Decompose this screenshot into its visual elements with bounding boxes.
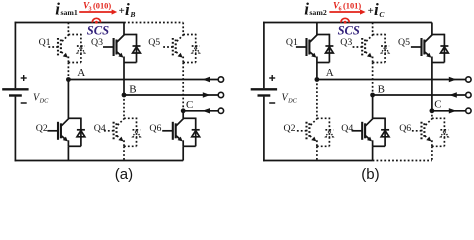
- wire: left rail bottom: [14, 97, 16, 162]
- phase B current arrow: [203, 92, 211, 97]
- wire: bottom DC rail (open part, dotted): [373, 160, 432, 162]
- wire: phase A leg, node A to lower cell: [67, 80, 69, 119]
- diode of Q5: [440, 46, 448, 53]
- phase B terminal: [218, 92, 223, 97]
- wire: phase B output line: [373, 94, 466, 96]
- wire: phase A output line: [68, 79, 218, 81]
- battery V_DC: [251, 89, 277, 95]
- svg-text:Q6: Q6: [399, 123, 411, 134]
- wire: phase C output line: [183, 110, 218, 112]
- transistor Q5: [162, 34, 196, 63]
- svg-text:i: i: [125, 0, 130, 19]
- commutation current arrow (red): [79, 9, 117, 14]
- wire: phase C upper leg from top rail: [431, 23, 433, 35]
- wire: phase B leg, node B to lower cell: [123, 95, 125, 118]
- svg-text:+: +: [368, 5, 374, 17]
- battery plus mark: [21, 75, 27, 81]
- svg-text:SCS: SCS: [87, 24, 109, 38]
- svg-text:6: 6: [339, 6, 342, 13]
- svg-text:+: +: [119, 5, 125, 17]
- battery minus mark: [21, 102, 27, 104]
- diode of Q3: [381, 46, 389, 53]
- svg-text:SCS: SCS: [338, 24, 360, 38]
- transistor Q6: [411, 118, 445, 147]
- phase A current arrow: [449, 77, 457, 82]
- wire: phase B output line: [124, 94, 218, 96]
- svg-text:A: A: [326, 67, 334, 79]
- wire: phase C lower cell to bottom rail: [182, 146, 184, 160]
- diode of Q6: [440, 130, 448, 137]
- svg-text:B: B: [129, 84, 136, 96]
- svg-text:DC: DC: [287, 98, 298, 105]
- svg-text:(101): (101): [343, 2, 361, 11]
- svg-text:Q3: Q3: [340, 37, 352, 48]
- label V_6(101): [333, 1, 361, 13]
- label i_sam: [304, 0, 327, 18]
- wire: phase C leg, node C to lower cell: [182, 111, 184, 119]
- wire: phase C leg, upper cell to node C: [431, 63, 433, 111]
- svg-text:Q5: Q5: [398, 37, 410, 48]
- svg-text:B: B: [129, 10, 135, 19]
- label V_DC: [33, 93, 49, 105]
- wire: phase B leg, node B to lower cell: [372, 95, 374, 118]
- node C: [181, 108, 186, 113]
- wire: bottom DC rail (solid part): [263, 160, 373, 162]
- svg-text:(b): (b): [361, 166, 379, 182]
- label i_sam: [55, 0, 78, 18]
- node B: [370, 93, 375, 98]
- wire: left rail bottom: [263, 97, 265, 162]
- phase C current arrow: [203, 108, 211, 113]
- diode of Q4: [133, 130, 141, 137]
- wire: phase C output line: [432, 110, 466, 112]
- svg-text:Q1: Q1: [39, 37, 51, 48]
- transistor Q2: [47, 118, 81, 147]
- wire: phase C leg, upper cell to node C: [182, 63, 184, 111]
- svg-text:C: C: [434, 98, 441, 110]
- wire: phase A leg, upper cell to node A: [316, 63, 318, 80]
- battery plus mark: [269, 75, 275, 81]
- wire: phase C leg, node C to lower cell: [431, 111, 433, 119]
- svg-text:Q4: Q4: [94, 123, 106, 134]
- svg-text:sam2: sam2: [309, 8, 326, 17]
- wire: left rail top: [14, 22, 16, 89]
- svg-text:Q4: Q4: [341, 123, 353, 134]
- diode of Q1: [77, 46, 85, 53]
- wire: phase A upper leg from top rail: [67, 23, 69, 35]
- svg-text:DC: DC: [39, 98, 50, 105]
- label +i_C: [368, 0, 386, 19]
- node B: [122, 93, 127, 98]
- phase C terminal: [218, 108, 223, 113]
- svg-text:Q2: Q2: [284, 123, 296, 134]
- wire: phase A lower cell to bottom rail: [67, 146, 69, 160]
- diode of Q6: [192, 130, 200, 137]
- svg-text:Q5: Q5: [148, 37, 160, 48]
- svg-text:C: C: [186, 99, 193, 111]
- node C: [430, 108, 435, 113]
- wire: phase C upper leg from top rail: [182, 23, 184, 35]
- wire: left rail top: [263, 22, 265, 89]
- svg-text:Q1: Q1: [286, 37, 298, 48]
- svg-text:Q2: Q2: [36, 123, 48, 134]
- transistor Q5: [411, 34, 445, 63]
- svg-text:Q6: Q6: [149, 123, 161, 134]
- wire: phase B upper leg from top rail: [123, 23, 125, 35]
- transistor Q2: [296, 118, 330, 147]
- diode of Q2: [77, 130, 85, 137]
- wire: top DC rail (open part, dotted): [124, 22, 183, 24]
- wire: phase B leg, upper cell to node B: [372, 63, 374, 96]
- svg-text:i: i: [374, 0, 379, 19]
- diode of Q4: [381, 130, 389, 137]
- current sensor SCS bump: [92, 18, 100, 22]
- label +i_B: [119, 0, 136, 19]
- transistor Q1: [47, 34, 81, 63]
- phase A terminal: [218, 77, 223, 82]
- label V_DC: [282, 93, 298, 105]
- phase B terminal: [466, 92, 471, 97]
- svg-text:A: A: [77, 67, 85, 79]
- wire: top DC rail: [263, 22, 432, 24]
- phase C current arrow: [449, 108, 457, 113]
- wire: phase B leg, upper cell to node B: [123, 63, 125, 96]
- diode of Q1: [325, 46, 333, 53]
- current sensor SCS dot: [344, 21, 347, 24]
- wire: phase A lower cell to bottom rail: [316, 146, 318, 160]
- phase A current arrow: [203, 77, 211, 82]
- wire: phase B lower cell to bottom rail: [123, 146, 125, 160]
- commutation current arrow (red): [329, 9, 365, 14]
- phase B current arrow: [449, 92, 457, 97]
- battery minus mark: [269, 102, 275, 104]
- battery V_DC: [2, 89, 28, 95]
- current sensor SCS bump: [341, 18, 349, 22]
- svg-text:3: 3: [89, 6, 92, 13]
- phase C terminal: [466, 108, 471, 113]
- wire: phase C lower cell to bottom rail: [431, 146, 433, 160]
- diode of Q5: [192, 46, 200, 53]
- svg-text:(010): (010): [93, 2, 111, 11]
- transistor Q4: [103, 118, 137, 147]
- wire: phase A leg, node A to lower cell: [316, 80, 318, 119]
- wire: top DC rail (solid part): [15, 22, 124, 24]
- diode of Q3: [133, 46, 141, 53]
- wire: phase B lower cell to bottom rail: [372, 146, 374, 160]
- node A: [315, 77, 320, 82]
- transistor Q4: [352, 118, 386, 147]
- transistor Q1: [296, 34, 330, 63]
- phase A terminal: [466, 77, 471, 82]
- wire: phase A upper leg from top rail: [316, 23, 318, 35]
- transistor Q6: [162, 118, 196, 147]
- diode of Q2: [325, 130, 333, 137]
- svg-text:B: B: [378, 84, 385, 96]
- current sensor SCS dot: [95, 21, 98, 24]
- svg-text:(a): (a): [115, 166, 133, 182]
- node A: [66, 77, 71, 82]
- wire: phase B upper leg from top rail: [372, 23, 374, 35]
- transistor Q3: [103, 34, 137, 63]
- svg-text:Q3: Q3: [91, 37, 103, 48]
- wire: phase A leg, upper cell to node A: [67, 63, 69, 80]
- wire: phase A output line: [317, 79, 466, 81]
- wire: bottom DC rail: [15, 160, 184, 162]
- transistor Q3: [352, 34, 386, 63]
- svg-text:sam1: sam1: [61, 8, 78, 17]
- label V_3(010): [83, 1, 111, 13]
